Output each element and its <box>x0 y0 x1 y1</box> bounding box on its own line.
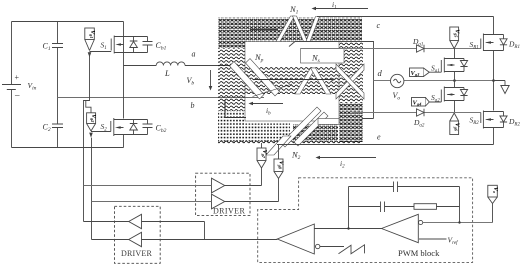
gate probe Vg3 <box>410 68 430 77</box>
winding band to N2 exit <box>281 107 321 147</box>
svg-text:DRIVER: DRIVER <box>213 207 245 216</box>
wire error amp input feedback <box>423 222 493 224</box>
svg-text:b: b <box>191 101 195 110</box>
wire error amp to comparator <box>314 228 381 230</box>
gate probe Vg4 <box>412 98 430 107</box>
wire SR bus <box>493 17 495 145</box>
svg-text:PWM block: PWM block <box>398 248 440 258</box>
capacitor feedback inner <box>349 202 415 213</box>
svg-text:Cb1: Cb1 <box>156 41 167 52</box>
node b wire <box>58 97 265 99</box>
wire secondary vertical d <box>289 41 374 119</box>
diode Sa2 body <box>455 88 468 101</box>
core top bar <box>218 18 362 42</box>
arrow Vb <box>209 70 213 91</box>
winding N1 tent right slant <box>293 16 308 42</box>
winding elbow in dot region <box>225 100 246 118</box>
svg-text:L: L <box>164 68 170 78</box>
source Vo <box>391 74 404 87</box>
svg-text:Sa1: Sa1 <box>431 64 440 75</box>
gate probe Vg5 <box>450 27 460 49</box>
svg-text:Vg6: Vg6 <box>454 123 460 132</box>
wire half-bridge vertical <box>123 22 125 148</box>
svg-text:SR1: SR1 <box>470 40 479 51</box>
wire right driver inputs <box>84 186 212 202</box>
transistor SR2 <box>481 111 494 129</box>
wire node d line <box>374 80 494 82</box>
svg-text:c: c <box>377 21 381 30</box>
inductor L <box>124 62 235 66</box>
core window outline <box>245 42 339 122</box>
winding box Ns <box>301 49 345 64</box>
gate probe Vg6 <box>450 113 460 135</box>
wire Vo sense <box>492 204 494 223</box>
probe Vo sense <box>488 185 498 203</box>
winding Np band over left core <box>230 62 265 100</box>
svg-text:S1: S1 <box>101 41 107 51</box>
wire top rail left <box>12 21 124 23</box>
winding chevron band right <box>311 68 332 94</box>
transistor S2 <box>111 118 124 136</box>
transistor Sa1 <box>429 58 454 73</box>
wire left driver inputs <box>142 222 278 240</box>
arrow i2 <box>316 156 377 160</box>
wire gate line c <box>301 48 481 50</box>
core left leg upper <box>218 42 245 49</box>
gate probe Vg7 <box>257 143 267 168</box>
svg-text:e: e <box>377 133 381 142</box>
svg-text:Vg4: Vg4 <box>413 100 423 107</box>
gate probe Vg2 <box>86 101 96 138</box>
transistor S1 <box>111 36 123 54</box>
junction node dots <box>453 79 456 82</box>
svg-text:Vo: Vo <box>492 187 498 193</box>
svg-text:Vb: Vb <box>187 76 195 87</box>
diode DR2 <box>483 112 507 128</box>
op-amp comparator <box>277 224 320 254</box>
svg-text:i2: i2 <box>340 159 345 170</box>
diode DR1 <box>483 35 507 51</box>
wire comparator sawtooth input <box>320 246 344 248</box>
svg-text:Da2: Da2 <box>413 118 425 129</box>
svg-text:Vref: Vref <box>448 236 459 247</box>
winding N1 wire <box>250 29 278 31</box>
gate probe Vg1 <box>85 28 95 57</box>
transistor SR1 <box>481 34 494 52</box>
core center leg winding area <box>339 42 363 104</box>
wire feedback verticals <box>349 187 460 229</box>
winding N2 exit bottom <box>266 136 291 155</box>
core bottom edge <box>218 141 362 144</box>
capacitor feedback outer <box>349 182 460 193</box>
wire Sa1 connections <box>454 49 456 81</box>
svg-text:a: a <box>192 50 196 59</box>
wire Sa2 connections <box>454 81 456 113</box>
svg-text:+: + <box>15 73 20 82</box>
svg-text:DR1: DR1 <box>508 40 520 51</box>
wire Vref <box>419 238 447 240</box>
winding notch box <box>318 119 339 125</box>
gate probe Vg8 <box>274 145 284 179</box>
winding crossing center leg <box>336 64 364 99</box>
core center leg lower <box>339 103 363 142</box>
svg-text:Np: Np <box>254 52 264 64</box>
svg-text:S2: S2 <box>101 122 108 132</box>
winding N1 tent left slant <box>276 16 295 42</box>
svg-text:Da1: Da1 <box>412 37 423 48</box>
svg-text:Vg8: Vg8 <box>278 161 284 170</box>
wire right driver outputs <box>225 186 279 202</box>
svg-text:C2: C2 <box>43 123 51 134</box>
svg-text:Vin: Vin <box>28 81 37 92</box>
wire gate line e <box>352 112 481 114</box>
wire S2 gate <box>91 132 111 240</box>
sawtooth symbol <box>339 245 365 254</box>
wire probe Vg7 <box>261 168 263 186</box>
diode Da1 <box>417 45 425 52</box>
svg-text:–: – <box>14 90 20 100</box>
winding crossing center leg 2 <box>336 64 364 99</box>
svg-text:N1: N1 <box>289 4 299 16</box>
driver block left <box>115 206 161 263</box>
diode Da2 <box>417 109 425 116</box>
battery Vin <box>2 22 21 148</box>
wire probe Vg8 <box>278 179 280 202</box>
core bottom bar right <box>293 125 338 142</box>
wire left driver outputs <box>84 222 129 240</box>
svg-text:Vg1: Vg1 <box>89 30 95 38</box>
wire secondary top rail <box>317 16 494 18</box>
op-amp error amplifier <box>382 214 423 242</box>
svg-text:Vg3: Vg3 <box>411 70 421 77</box>
svg-text:SR2: SR2 <box>470 116 480 127</box>
driver block right <box>196 173 250 215</box>
core bottom bar left <box>245 124 290 142</box>
svg-text:Vo: Vo <box>393 91 401 102</box>
svg-text:DRIVER: DRIVER <box>121 249 152 258</box>
resistor feedback <box>414 204 460 210</box>
PWM block outline <box>258 178 473 263</box>
capacitor C2 <box>52 98 63 148</box>
core left leg lower <box>218 111 245 142</box>
svg-text:Cb2: Cb2 <box>156 124 167 135</box>
svg-text:Vg5: Vg5 <box>454 29 460 37</box>
svg-text:ib: ib <box>266 106 271 117</box>
diode and capacitor Cb2 <box>124 120 153 135</box>
svg-text:C1: C1 <box>43 42 51 53</box>
wire node e line <box>277 144 494 146</box>
svg-text:Vg2: Vg2 <box>90 114 96 122</box>
diode Sa1 body <box>455 59 468 72</box>
capacitor C1 <box>52 22 63 98</box>
wire S1 gate <box>84 52 112 222</box>
ground <box>494 81 510 94</box>
winding Np turns across window <box>245 67 339 95</box>
svg-text:i1: i1 <box>332 0 337 11</box>
core left leg winding area <box>218 48 245 111</box>
winding chevron band left <box>295 68 316 94</box>
winding Np wire <box>254 79 332 81</box>
svg-text:d: d <box>378 68 383 78</box>
transformer core hatched regions <box>218 18 363 144</box>
diode and capacitor Cb1 <box>124 37 153 53</box>
transistor Sa2 <box>429 87 454 103</box>
arrow ib <box>249 102 284 106</box>
svg-text:N2: N2 <box>291 150 301 162</box>
winding Np band 2 <box>246 59 280 97</box>
wire bottom rail left <box>12 147 124 149</box>
winding exit band to rail <box>306 17 320 42</box>
svg-text:DR2: DR2 <box>508 117 520 128</box>
arrow i1 <box>312 7 369 11</box>
svg-text:Sa2: Sa2 <box>431 93 440 104</box>
svg-text:Vg7: Vg7 <box>261 150 267 159</box>
